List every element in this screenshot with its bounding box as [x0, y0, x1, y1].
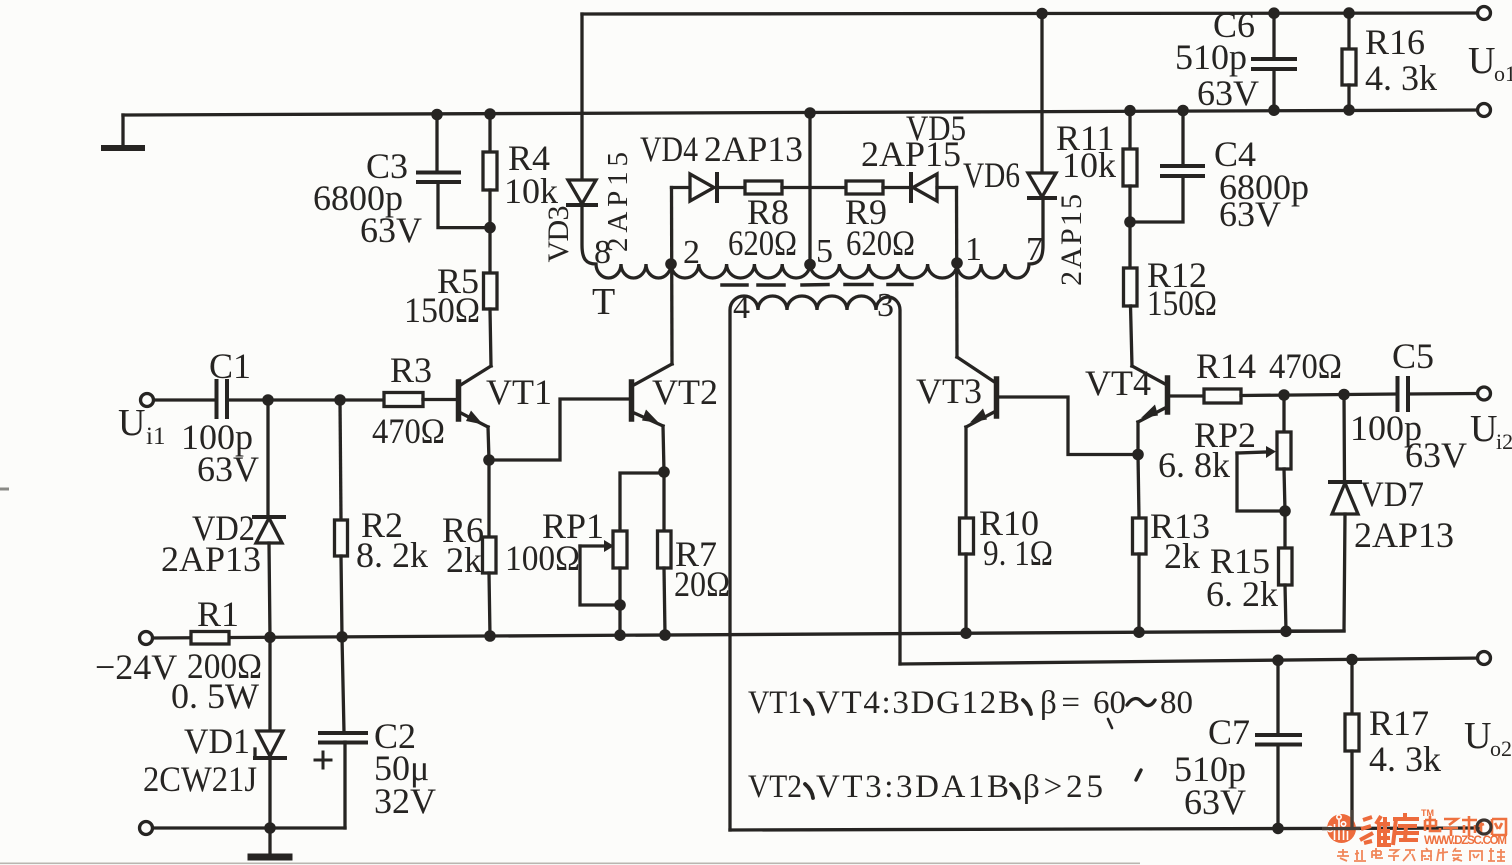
diode VD5 2AP15: [911, 174, 957, 201]
transformer T secondary winding (pins 4-3): [730, 296, 900, 830]
wire Uo2 lower line (pin 4 down-and-right to Uo2 bottom terminal): [730, 828, 1478, 830]
wire top rail (+V line from VD3 corner to Uo1 top terminal): [582, 13, 1484, 14]
node dot R2 tap: [334, 394, 346, 406]
resistor R7 20 ohm: [658, 472, 672, 634]
transistor VT3 3DA1B (mirrored): [957, 357, 997, 518]
node junction dots on bottom rail: [264, 626, 1292, 644]
node dot RP2 bottom junction: [1279, 505, 1291, 517]
capacitor C6 510p 63V: [1253, 13, 1295, 110]
wire VT4 base to R14: [1170, 394, 1204, 397]
resistor R4 10k: [483, 114, 497, 228]
svg-text:C1: C1: [209, 346, 251, 386]
resistor R10 9.1 ohm: [960, 518, 974, 633]
node dot C7 bottom: [1272, 823, 1284, 835]
wire Ui1 to C1: [154, 398, 216, 401]
svg-text:−24V: −24V: [95, 647, 177, 687]
svg-text:β>25: β>25: [1023, 769, 1103, 805]
resistor R13 2k: [1133, 455, 1147, 633]
svg-text:3: 3: [877, 287, 894, 324]
wire vertical drop from top rail corner to VD3: [580, 14, 583, 180]
diode VD6 2AP15: [1028, 14, 1056, 199]
svg-text:VT2: VT2: [652, 372, 718, 412]
svg-text:2AP13: 2AP13: [161, 539, 261, 579]
wire VT1 emitter to VT2 base: [489, 399, 629, 460]
node junction dots on top rail: [1036, 7, 1355, 19]
capacitor C2 50u 32V electrolytic: [315, 637, 366, 828]
ground (chassis, top left): [104, 115, 142, 148]
node dot VD7 tap: [1338, 389, 1350, 401]
resistor R1 200 ohm 0.5W: [191, 632, 229, 645]
svg-text:470Ω: 470Ω: [1269, 346, 1342, 386]
stray mark apostrophe: [1136, 770, 1141, 780]
resistor R17 4.3k: [1345, 660, 1359, 829]
svg-text:4. 3k: 4. 3k: [1369, 739, 1441, 779]
transistor VT1 3DG12B: [459, 366, 492, 460]
svg-text:VT1: VT1: [748, 685, 802, 721]
svg-text:o1: o1: [1494, 61, 1512, 86]
svg-text:63V: 63V: [1405, 435, 1467, 475]
node dot VD1 top of bottom wire: [264, 822, 276, 834]
svg-text:6. 2k: 6. 2k: [1206, 574, 1278, 614]
wire VT2 collector up to transformer pin 2: [670, 188, 674, 365]
svg-text:U: U: [1468, 40, 1495, 82]
resistor R9 620 ohm: [846, 181, 911, 194]
stray mark tick: [1108, 719, 1112, 728]
node dot VT2 emitter junction: [658, 466, 670, 478]
svg-text:C7: C7: [1208, 712, 1250, 752]
svg-text:TM: TM: [1421, 808, 1434, 818]
svg-text:VT4:3DG12B: VT4:3DG12B: [816, 685, 1020, 721]
capacitor C4 6800p 63V: [1130, 111, 1203, 223]
svg-text:2AP13: 2AP13: [704, 129, 803, 169]
svg-text:63V: 63V: [197, 449, 259, 489]
label VD3 rotated: [542, 206, 575, 263]
svg-text:2AP13: 2AP13: [1354, 515, 1454, 555]
svg-text:10k: 10k: [504, 171, 558, 211]
watermark logo dzsc.com: [1326, 808, 1507, 861]
wire bottom left common to C2 foot: [153, 826, 345, 829]
node dot VT4 emitter junction: [1132, 449, 1144, 461]
node dot C7 top: [1272, 655, 1284, 667]
svg-text:U: U: [118, 402, 145, 444]
logo text dianzi shichang wang (vector approx): [1425, 816, 1507, 836]
svg-text:4. 3k: 4. 3k: [1365, 58, 1437, 98]
transformer core dashes: [722, 283, 912, 287]
svg-text:63V: 63V: [360, 210, 422, 250]
logo slogan (vector approx CJK): [1337, 848, 1505, 861]
svg-text:R14: R14: [1196, 346, 1256, 386]
diode VD1 2CW21J zener: [255, 637, 285, 828]
svg-text:C5: C5: [1392, 336, 1434, 376]
node dot R11/R12/C4 junction: [1124, 216, 1136, 228]
node dot RP2 tap: [1278, 389, 1290, 401]
svg-text:WWW.DZSC.COM: WWW.DZSC.COM: [1424, 835, 1507, 847]
svg-text:2AP15: 2AP15: [861, 134, 961, 174]
terminal Ui1: [141, 394, 154, 407]
svg-text:VT3: VT3: [916, 371, 982, 411]
svg-text:470Ω: 470Ω: [372, 411, 445, 451]
svg-text:2CW21J: 2CW21J: [143, 759, 257, 799]
terminal Uo2 bottom (drawn over logo): [1477, 820, 1491, 834]
logo glyph wei (vector approx): [1360, 816, 1391, 845]
svg-text:0. 5W: 0. 5W: [171, 676, 259, 716]
svg-text:R17: R17: [1369, 703, 1429, 743]
svg-text:VT2: VT2: [748, 769, 802, 805]
note transistor types line 2: [748, 769, 1103, 805]
resistor R11 10k: [1123, 111, 1137, 222]
wire C1 to R3: [227, 398, 384, 401]
node dot transformer pin 2: [665, 258, 677, 270]
svg-text:8: 8: [594, 234, 611, 271]
scan edge bottom: [0, 863, 1140, 865]
resistor R2 8.2k: [335, 400, 348, 637]
diode VD7 2AP13: [1286, 395, 1360, 632]
resistor R3 470 ohm: [384, 393, 456, 407]
svg-text:T: T: [592, 281, 615, 323]
wire Uo2 lower line redrawn across logo icon: [1322, 827, 1360, 830]
svg-text:8. 2k: 8. 2k: [356, 535, 428, 575]
potentiometer RP1 100 ohm: [580, 531, 627, 634]
svg-text:9. 1Ω: 9. 1Ω: [983, 533, 1053, 573]
node dot VT1 emitter junction: [483, 454, 495, 466]
capacitor C7 510p 63V: [1257, 660, 1300, 828]
terminal -24V input: [140, 632, 153, 645]
svg-text:63V: 63V: [1219, 194, 1281, 234]
terminal Uo1 bottom: [1478, 104, 1491, 117]
svg-text:150Ω: 150Ω: [404, 290, 480, 330]
svg-text:β=: β=: [1040, 685, 1080, 721]
svg-text:VD7: VD7: [1360, 474, 1424, 514]
potentiometer RP2 6.8k: [1237, 395, 1291, 511]
transistor VT4 3DG12B (mirrored): [1132, 366, 1168, 455]
resistor R14 470 ohm: [1204, 389, 1397, 403]
resistor R16 4.3k: [1342, 13, 1356, 110]
node dot R17 top: [1346, 654, 1358, 666]
svg-text:VD1: VD1: [184, 721, 250, 761]
diode VD4 2AP13: [690, 174, 745, 201]
wire pin5 up to second rail: [808, 113, 811, 264]
svg-text:o2: o2: [1490, 736, 1512, 761]
node dot R4/R5/C3 junction: [484, 222, 496, 234]
svg-text:32V: 32V: [374, 781, 436, 821]
stray mark left edge dash: [0, 488, 9, 491]
svg-text:4: 4: [733, 289, 750, 326]
svg-text:VD4: VD4: [640, 129, 698, 169]
resistor R12 150 ohm: [1124, 222, 1138, 366]
svg-text:R1: R1: [197, 594, 239, 634]
resistor R5 150 ohm: [484, 228, 498, 366]
svg-text:2k: 2k: [1164, 536, 1200, 576]
svg-text:10k: 10k: [1062, 145, 1116, 185]
wire Uo2 upper line (pin 3 to Uo2 top terminal): [900, 658, 1484, 664]
terminal Uo2 top: [1478, 652, 1491, 665]
transistor VT2 3DA1B: [632, 364, 673, 472]
capacitor C3 6800p 63V: [418, 115, 490, 228]
resistor R6 2k: [483, 460, 497, 636]
wire second rail (ground rail from chassis to Uo1 bottom terminal): [123, 110, 1484, 115]
wire R17 lead redrawn across logo icon: [1350, 810, 1353, 829]
wire VT2 emitter to RP1 top: [620, 473, 664, 531]
node junction dots on second rail: [431, 104, 1355, 120]
terminal bottom left common: [140, 822, 153, 835]
svg-text:7: 7: [1026, 231, 1043, 268]
svg-text:63V: 63V: [1197, 73, 1259, 113]
node dot transformer pin 1: [951, 257, 963, 269]
resistor R15 6.2k: [1279, 511, 1293, 631]
wire chain left corner down to pin 2 / VT2 collector: [672, 186, 691, 189]
svg-text:VT1: VT1: [486, 372, 552, 412]
label VD6 type rotated: [1055, 194, 1088, 286]
svg-text:VD3: VD3: [542, 206, 575, 263]
transformer T primary winding (pins 8-2-5-1-7): [582, 198, 1043, 278]
capacitor C5 100p 63V: [1398, 378, 1478, 410]
note transistor types line 1: [748, 685, 1193, 721]
logo glyph ku (vector approx): [1393, 813, 1419, 845]
terminal Uo1 top: [1478, 7, 1491, 20]
node dot VD2 tap: [262, 394, 274, 406]
svg-text:6. 8k: 6. 8k: [1158, 445, 1230, 485]
svg-text:U: U: [1464, 715, 1491, 757]
svg-text:100Ω: 100Ω: [505, 538, 580, 578]
svg-text:R3: R3: [390, 350, 432, 390]
svg-text:i2: i2: [1496, 429, 1512, 454]
svg-text:5: 5: [816, 233, 833, 270]
svg-text:150Ω: 150Ω: [1147, 283, 1217, 323]
ground (bottom, below VD1): [251, 828, 289, 857]
svg-text:620Ω: 620Ω: [846, 223, 915, 263]
label VD3 type rotated: [602, 152, 634, 252]
svg-text:2k: 2k: [446, 540, 482, 580]
svg-text:510p: 510p: [1175, 37, 1247, 77]
svg-text:20Ω: 20Ω: [674, 564, 730, 604]
svg-text:VD6: VD6: [963, 155, 1020, 195]
resistor R8 620 ohm: [745, 181, 846, 194]
wire chain right corner down to pin 1 / VT3 collector: [955, 188, 959, 358]
node dot transformer pin 5: [804, 259, 816, 271]
svg-text:60: 60: [1093, 685, 1126, 721]
svg-text:80: 80: [1160, 685, 1193, 721]
svg-text:R16: R16: [1365, 22, 1425, 62]
svg-text:2AP15: 2AP15: [1055, 194, 1088, 286]
svg-text:i1: i1: [146, 423, 165, 450]
svg-text:2: 2: [683, 234, 700, 271]
diode VD2 2AP13: [254, 400, 284, 637]
wire VT3 base to VT4 emitter junction: [999, 397, 1134, 455]
svg-text:63V: 63V: [1184, 782, 1246, 822]
diode VD3 2AP15: [568, 180, 596, 205]
capacitor C1 100p 63V: [217, 381, 228, 417]
svg-text:VT4: VT4: [1085, 363, 1151, 403]
svg-text:VT3:3DA1B: VT3:3DA1B: [816, 769, 1009, 805]
svg-text:620Ω: 620Ω: [728, 223, 797, 263]
wire bottom rail (-24V rail): [153, 631, 1344, 638]
terminal Ui2: [1478, 387, 1491, 400]
svg-text:U: U: [1470, 408, 1497, 450]
svg-text:1: 1: [965, 231, 982, 268]
